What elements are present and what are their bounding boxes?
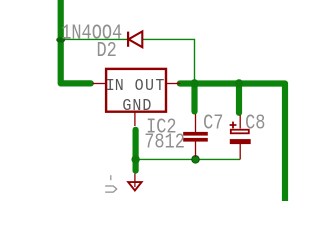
svg-text:IN: IN [106, 76, 124, 95]
svg-text:C7: C7 [203, 111, 223, 135]
svg-text:7812: 7812 [144, 130, 185, 154]
svg-text:OUT: OUT [135, 76, 166, 95]
svg-text:C8: C8 [245, 111, 265, 135]
svg-text:D2: D2 [97, 38, 117, 62]
svg-text:GND: GND [122, 96, 152, 115]
